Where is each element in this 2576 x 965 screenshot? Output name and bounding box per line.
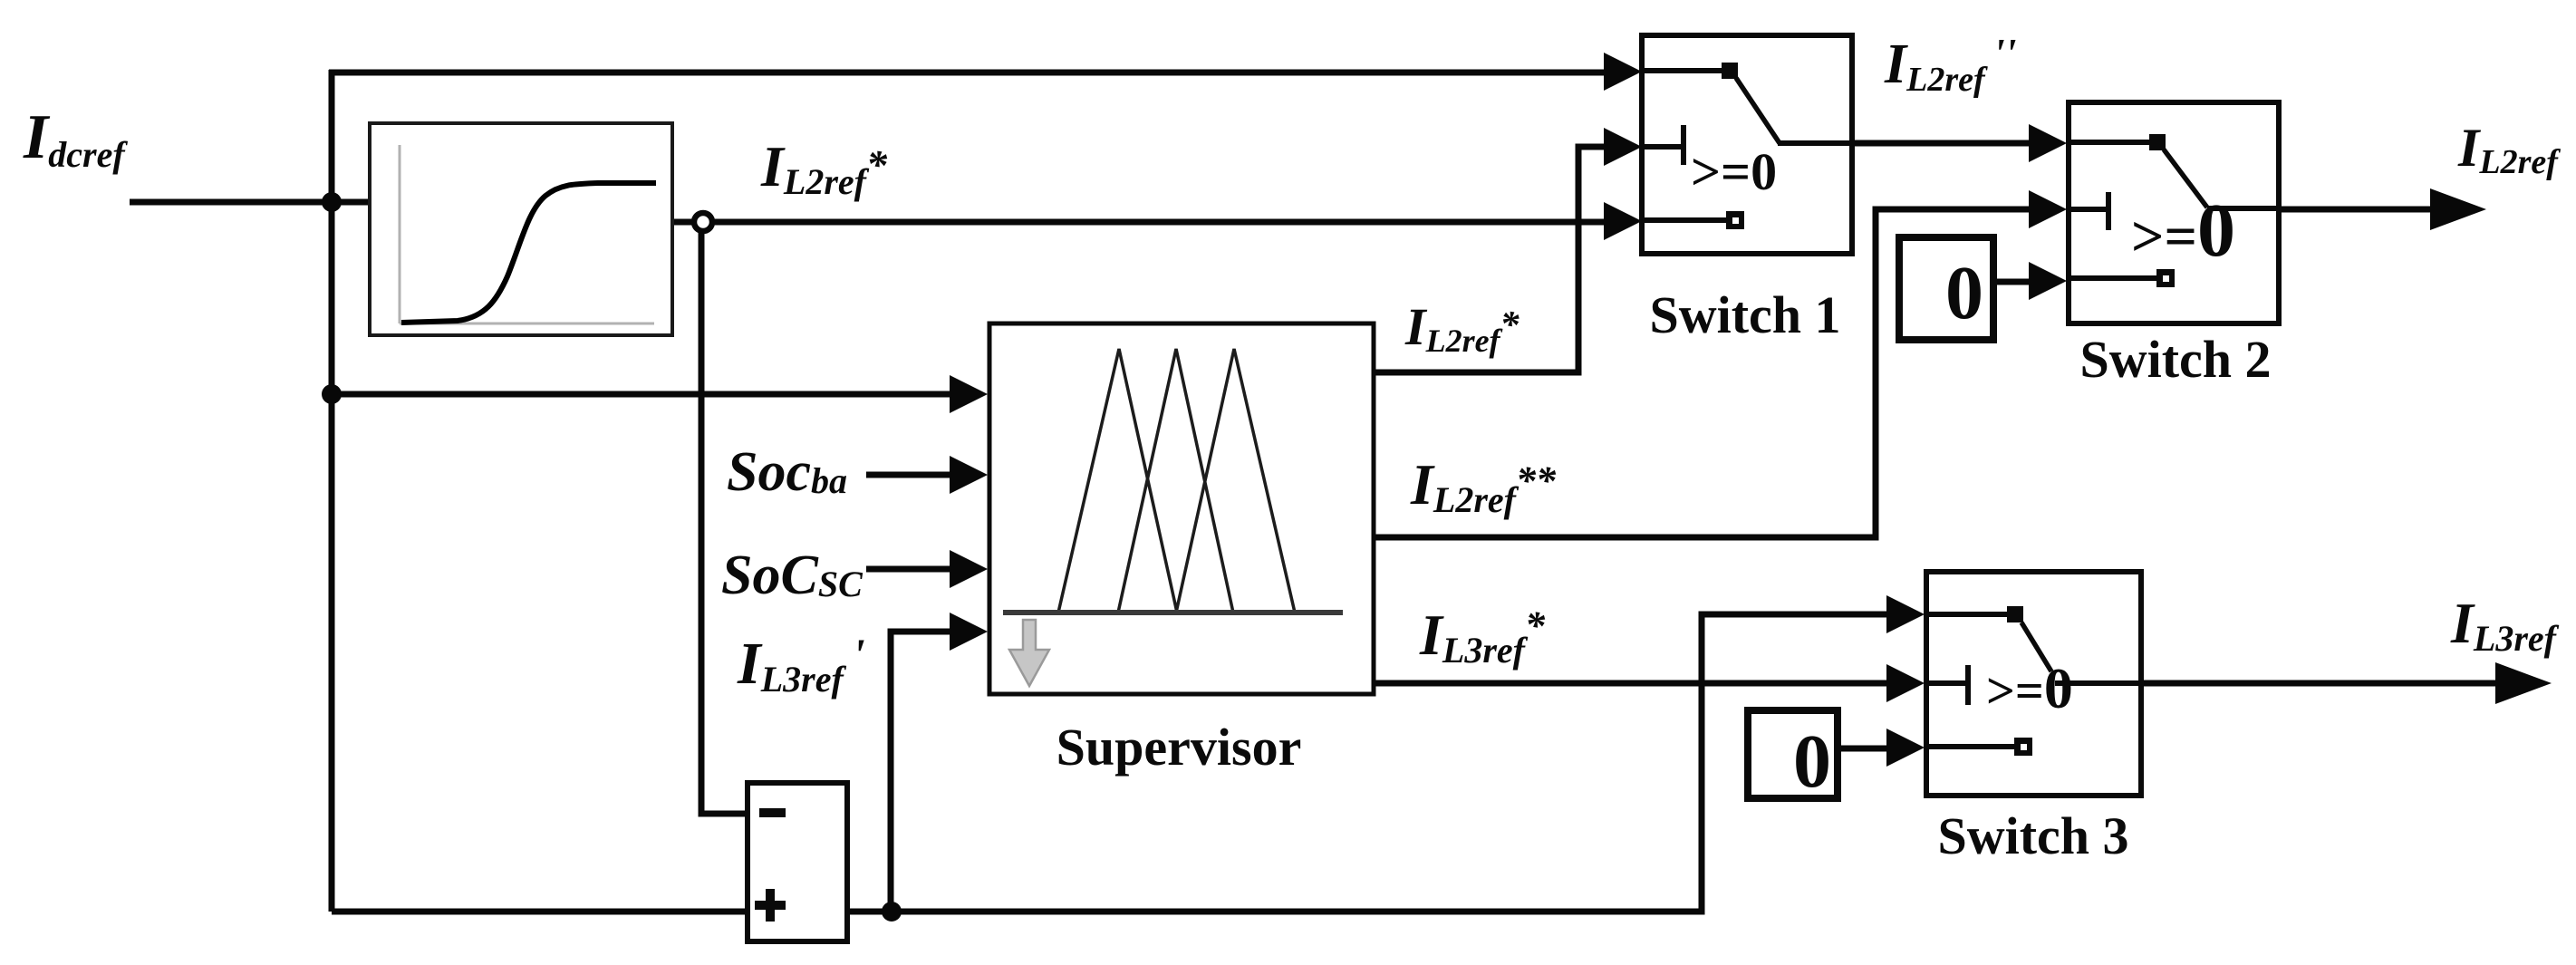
svg-text:Switch 3: Switch 3 — [1937, 806, 2128, 865]
svg-text:0: 0 — [1945, 251, 1983, 335]
svg-text:Switch 1: Switch 1 — [1649, 285, 1840, 344]
svg-text:Switch 2: Switch 2 — [2079, 330, 2271, 389]
svg-text:0: 0 — [1793, 719, 1831, 804]
svg-text:>=0: >=0 — [1986, 656, 2073, 720]
svg-text:Supervisor: Supervisor — [1056, 718, 1302, 777]
svg-text:>=0: >=0 — [1691, 142, 1777, 201]
